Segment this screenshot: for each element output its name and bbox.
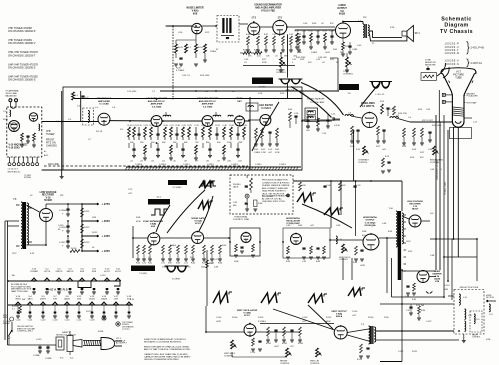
IF screen bypass labels xyxy=(135,163,287,166)
label damper xyxy=(432,271,442,283)
svg-text:.05: .05 xyxy=(173,161,177,163)
svg-text:R-92: R-92 xyxy=(408,251,412,253)
IF bias bank tier 2 xyxy=(129,143,240,160)
height control xyxy=(280,348,292,365)
svg-text:L-17: L-17 xyxy=(473,122,478,124)
filter capacitors C-131 xyxy=(59,204,82,248)
svg-text:C-110: C-110 xyxy=(250,352,255,354)
vert osc values xyxy=(266,343,303,348)
IF bias bank tier 1 xyxy=(128,125,248,140)
svg-text:B+: B+ xyxy=(44,151,47,153)
svg-text:C-72: C-72 xyxy=(184,263,188,265)
svg-text:RES: RES xyxy=(3,317,8,319)
note to heater string xyxy=(24,175,32,179)
waveform pulse pair xyxy=(200,181,216,186)
svg-text:R-24: R-24 xyxy=(216,125,221,127)
svg-text:LOW VOLTAGE: LOW VOLTAGE xyxy=(40,191,57,194)
svg-text:R-33: R-33 xyxy=(300,59,305,61)
svg-text:R-27: R-27 xyxy=(262,59,266,61)
svg-text:70K: 70K xyxy=(195,142,199,144)
coil L-3 shield (dashed) xyxy=(83,108,94,125)
AGC network xyxy=(254,128,280,154)
svg-text:+: + xyxy=(62,229,64,232)
svg-text:5T8: 5T8 xyxy=(53,298,58,300)
svg-text:R-34: R-34 xyxy=(295,31,300,33)
wire yoke feeds xyxy=(436,290,454,302)
svg-text:ON CHASSIS 100290-V: ON CHASSIS 100290-V xyxy=(8,41,36,45)
svg-text:1B3: 1B3 xyxy=(77,298,82,300)
heater row 2 bypass xyxy=(16,305,131,318)
svg-text:L-8 36: L-8 36 xyxy=(334,125,340,127)
svg-text:AMPLIFIER: AMPLIFIER xyxy=(151,103,163,106)
svg-text:AGC LINE: AGC LINE xyxy=(48,163,59,166)
wire B+ bus xyxy=(81,204,83,251)
svg-text:C-37: C-37 xyxy=(237,125,241,127)
svg-text:4.7: 4.7 xyxy=(188,47,192,49)
svg-text:C-139 A: C-139 A xyxy=(135,163,142,166)
svg-text:6U8: 6U8 xyxy=(193,14,198,16)
svg-text:DL-1: DL-1 xyxy=(157,197,162,199)
svg-text:.04: .04 xyxy=(162,161,166,163)
tube V-13 xyxy=(363,234,379,250)
svg-text:VIDEO: VIDEO xyxy=(236,98,243,100)
svg-text:S-2: S-2 xyxy=(70,358,74,360)
svg-text:24DLP4B: 24DLP4B xyxy=(471,45,485,49)
svg-text:R-51: R-51 xyxy=(380,101,384,103)
svg-text:2.2M: 2.2M xyxy=(214,267,219,269)
svg-text:R-111: R-111 xyxy=(412,351,417,353)
svg-text:R-41: R-41 xyxy=(333,49,337,51)
wire IF signal row xyxy=(109,120,250,122)
svg-text:ON CHASSIS 100295-S: ON CHASSIS 100295-S xyxy=(8,65,36,69)
svg-text:SURGE: SURGE xyxy=(3,323,10,325)
svg-text:ION TRAP: ION TRAP xyxy=(467,101,477,104)
svg-text:C-139 B: C-139 B xyxy=(159,164,167,166)
svg-text:V-8: V-8 xyxy=(340,11,344,13)
svg-text:STRING: STRING xyxy=(24,177,32,179)
svg-text:R-81: R-81 xyxy=(342,185,346,187)
volume control R-36 xyxy=(276,53,287,74)
yoke damping RC xyxy=(406,304,425,320)
svg-text:C-81: C-81 xyxy=(233,202,237,204)
svg-text:R-134: R-134 xyxy=(71,248,77,250)
svg-text:10W: 10W xyxy=(92,217,96,219)
wire sound takeoff (shielded) xyxy=(172,26,174,97)
svg-text:R-24: R-24 xyxy=(198,47,203,49)
svg-text:CHECKED WITH VTVM.: CHECKED WITH VTVM. xyxy=(262,201,285,203)
svg-text:C-33 .01: C-33 .01 xyxy=(182,75,190,77)
svg-text:R-23: R-23 xyxy=(178,47,183,49)
wire speaker loop xyxy=(370,31,407,41)
svg-text:80K: 80K xyxy=(206,142,210,144)
svg-text:R-5: R-5 xyxy=(120,129,124,131)
svg-text:C-55: C-55 xyxy=(322,133,327,135)
contrast control xyxy=(358,146,370,164)
svg-text:V-9(A): V-9(A) xyxy=(336,313,343,316)
note surge xyxy=(3,321,11,325)
svg-text:V-13 6DQ6: V-13 6DQ6 xyxy=(365,222,377,224)
video load resistor xyxy=(402,128,407,148)
audio cathode network xyxy=(341,38,356,56)
svg-text:SYNC SEPARATOR: SYNC SEPARATOR xyxy=(143,220,163,223)
CRT focus box xyxy=(450,128,472,139)
svg-text:C-8: C-8 xyxy=(112,107,116,109)
capacitor C-138A xyxy=(33,345,42,357)
chassis list group 2 xyxy=(445,59,483,67)
svg-text:10K: 10K xyxy=(306,130,310,132)
svg-text:6.8K: 6.8K xyxy=(388,231,393,233)
svg-text:5T8: 5T8 xyxy=(278,16,283,20)
svg-text:4.7 MEG: 4.7 MEG xyxy=(176,70,185,72)
ground at x62 xyxy=(60,177,64,179)
svg-text:R-37: R-37 xyxy=(330,59,334,61)
svg-text:FUSE: FUSE xyxy=(98,331,104,333)
svg-text:1 MEG: 1 MEG xyxy=(254,152,261,154)
svg-text:C-75: C-75 xyxy=(128,189,133,191)
heater row 1 labels xyxy=(30,269,121,273)
svg-text:R-40 220K: R-40 220K xyxy=(296,57,306,59)
sync values xyxy=(137,267,219,269)
heater row 2 xyxy=(8,302,133,306)
video plate parts xyxy=(380,101,395,116)
heater bypass labels xyxy=(16,320,107,322)
horiz control box xyxy=(230,228,260,256)
svg-text:117V: 117V xyxy=(12,253,17,255)
svg-text:40K: 40K xyxy=(162,142,166,144)
svg-text:OUTPUT: OUTPUT xyxy=(337,8,347,10)
svg-text:R-19: R-19 xyxy=(280,93,284,95)
svg-text:SECTION: SECTION xyxy=(486,297,494,299)
svg-text:AND 1/2 WATT UNLESS OTHERWISE: AND 1/2 WATT UNLESS OTHERWISE NOTED. xyxy=(144,348,191,351)
svg-text:6DQ6: 6DQ6 xyxy=(89,298,95,300)
svg-text:R-29: R-29 xyxy=(254,50,258,52)
svg-text:8.2K: 8.2K xyxy=(385,156,390,158)
video det coil box xyxy=(246,103,258,111)
svg-text:R-37: R-37 xyxy=(323,31,327,33)
heater row 1 xyxy=(8,278,121,288)
svg-text:H E A T E R S: H E A T E R S xyxy=(48,288,67,292)
svg-text:LEAD FROM PLAYER TO: LEAD FROM PLAYER TO xyxy=(262,190,287,193)
waveform sync 1 xyxy=(297,193,316,202)
tube V-11B vert xyxy=(244,324,256,336)
svg-text:300Ω: 300Ω xyxy=(3,119,8,121)
svg-text:CONTROL: CONTROL xyxy=(472,337,481,339)
wire diag 1 xyxy=(273,309,335,330)
tuner tube V-15 xyxy=(9,121,20,132)
wire vertical at x62 xyxy=(61,91,63,176)
svg-text:C-46: C-46 xyxy=(330,31,335,33)
svg-text:R-85: R-85 xyxy=(286,261,290,263)
svg-text:100293-R: 100293-R xyxy=(445,52,460,55)
svg-text:.02: .02 xyxy=(322,62,325,64)
svg-text:R-59: R-59 xyxy=(410,157,414,159)
svg-text:C-77: C-77 xyxy=(214,259,218,261)
svg-text:10: 10 xyxy=(355,49,358,51)
svg-text:12AX4: 12AX4 xyxy=(101,297,108,300)
tube V-10A xyxy=(192,232,204,244)
damper network xyxy=(405,283,416,301)
wire row y280 stub xyxy=(343,279,402,281)
svg-text:C-143: C-143 xyxy=(53,320,58,322)
svg-text:PLAYER. REMOVE JUMPER: PLAYER. REMOVE JUMPER xyxy=(262,184,290,187)
wire video down xyxy=(353,131,355,181)
waveform vert 4 xyxy=(348,288,365,296)
tuner tube V-16 (partial) xyxy=(29,113,37,121)
svg-text:1 MEG: 1 MEG xyxy=(210,51,217,53)
svg-text:C-16: C-16 xyxy=(258,93,263,95)
svg-text:C-86: C-86 xyxy=(382,223,387,225)
wire CRT neck leads xyxy=(454,127,459,257)
wire vert bottom xyxy=(232,352,287,357)
svg-text:AUDIO: AUDIO xyxy=(338,4,346,7)
svg-text:C-39: C-39 xyxy=(316,59,320,61)
svg-text:6AQ5: 6AQ5 xyxy=(64,297,70,300)
label HORIZ OUTPUT xyxy=(363,216,378,227)
svg-text:V-3 3CB6: V-3 3CB6 xyxy=(203,106,213,108)
tube V-4 xyxy=(260,115,271,126)
svg-text:4.5 MC: 4.5 MC xyxy=(259,87,266,89)
svg-text:RECTIFIER: RECTIFIER xyxy=(42,195,55,197)
svg-text:TUNER: TUNER xyxy=(46,133,55,136)
power transformer T-8 xyxy=(13,199,32,249)
capacitor C-66 xyxy=(426,66,429,70)
svg-text:R-35: R-35 xyxy=(309,31,314,33)
svg-text:C-53: C-53 xyxy=(294,113,299,115)
svg-text:+ 125V: + 125V xyxy=(102,249,111,253)
svg-text:6CG7: 6CG7 xyxy=(244,315,250,317)
svg-text:220K: 220K xyxy=(384,317,389,319)
svg-text:6CG7: 6CG7 xyxy=(104,271,110,273)
svg-text:CONTROL TUBE: CONTROL TUBE xyxy=(233,219,250,221)
spark gap xyxy=(426,292,432,294)
label IF stage 1 xyxy=(97,98,112,105)
wire vert out row xyxy=(260,323,334,325)
svg-text:PROVISION IS MADE FOR: PROVISION IS MADE FOR xyxy=(262,179,288,182)
svg-text:TO 4.5 MC AMP: TO 4.5 MC AMP xyxy=(310,101,325,104)
svg-text:L-8: L-8 xyxy=(348,113,352,115)
wire vert row xyxy=(206,331,300,333)
svg-text:Schematic: Schematic xyxy=(441,16,472,22)
svg-text:CASCODE 1ST AMP: CASCODE 1ST AMP xyxy=(197,97,218,100)
svg-text:5: 5 xyxy=(292,62,294,64)
svg-text:R-55: R-55 xyxy=(418,109,423,111)
wire V7B-audio xyxy=(287,26,335,28)
svg-text:25: 25 xyxy=(372,43,375,45)
svg-text:1B3GT: 1B3GT xyxy=(412,209,419,211)
svg-text:ON CHASSIS 100292-P: ON CHASSIS 100292-P xyxy=(8,29,36,33)
svg-text:FROM BOOST SOURCE: FROM BOOST SOURCE xyxy=(437,159,439,180)
svg-text:R-18: R-18 xyxy=(176,125,181,127)
svg-text:R-88: R-88 xyxy=(362,231,367,233)
svg-text:6U8: 6U8 xyxy=(80,271,85,273)
svg-text:NOISE LIMITER: NOISE LIMITER xyxy=(186,8,203,10)
tube V-11B xyxy=(291,234,302,245)
svg-text:.0039: .0039 xyxy=(360,265,365,267)
coil pair scallops 2 xyxy=(370,79,393,97)
label IF stage 2 xyxy=(146,97,167,108)
svg-text:C-103: C-103 xyxy=(302,317,308,319)
svg-text:.047: .047 xyxy=(268,152,272,154)
svg-text:C-45: C-45 xyxy=(316,31,321,33)
IF inner top line xyxy=(74,98,302,100)
svg-text:.09: .09 xyxy=(217,161,220,163)
svg-text:3GK5: 3GK5 xyxy=(15,298,21,300)
label V-17 PICTURE TUBE xyxy=(453,71,464,80)
tuner components xyxy=(20,133,36,147)
label LV RECTIFIER xyxy=(40,191,57,202)
wire audio out top xyxy=(343,22,363,25)
svg-text:C-52: C-52 xyxy=(268,149,272,151)
svg-text:5AL5: 5AL5 xyxy=(27,297,33,300)
svg-text:5V: 5V xyxy=(30,195,33,197)
svg-text:R-65: R-65 xyxy=(202,263,206,265)
svg-text:TUNER: TUNER xyxy=(30,271,38,273)
yoke box (dashed) xyxy=(454,290,484,335)
capacitor C-2 xyxy=(81,96,89,99)
wire vert col xyxy=(206,250,207,332)
svg-text:OSCILLATOR: OSCILLATOR xyxy=(286,220,300,223)
svg-text:R-99: R-99 xyxy=(209,263,213,265)
yoke coil L-14B xyxy=(465,309,472,331)
svg-text:R-66: R-66 xyxy=(218,263,222,265)
svg-text:R-32: R-32 xyxy=(281,34,285,36)
peaking drops xyxy=(306,114,330,131)
svg-text:40: 40 xyxy=(58,229,61,231)
tube V-14 damper xyxy=(417,271,429,283)
svg-text:V-18: V-18 xyxy=(46,197,51,199)
label HORIZ CONTROL xyxy=(233,216,250,221)
svg-text:C-122: C-122 xyxy=(426,321,431,323)
svg-text:5T8: 5T8 xyxy=(252,16,257,20)
svg-text:Diagram: Diagram xyxy=(444,23,468,29)
svg-text:C-44: C-44 xyxy=(302,31,307,33)
svg-text:.0047: .0047 xyxy=(274,346,279,348)
svg-text:6U8: 6U8 xyxy=(151,226,156,228)
svg-text:R-103: R-103 xyxy=(298,343,303,345)
svg-text:C-23: C-23 xyxy=(144,125,149,127)
svg-text:TO DEFL YOKE: TO DEFL YOKE xyxy=(445,181,447,195)
tube V-6A xyxy=(192,23,202,33)
heater row 1 bypass xyxy=(32,281,120,294)
title Schematic Diagram TV Chassis xyxy=(440,16,473,35)
svg-text:C-91: C-91 xyxy=(357,185,361,187)
svg-text:AMPLIFIER: AMPLIFIER xyxy=(98,100,110,103)
svg-text:R-80: R-80 xyxy=(258,203,263,205)
transformer T-3 shield (dashed) xyxy=(217,16,239,43)
series peaking box xyxy=(302,108,332,122)
svg-text:C-27: C-27 xyxy=(170,125,174,127)
wire flyback to HV xyxy=(402,216,430,221)
cord connector xyxy=(73,340,82,348)
svg-text:.08: .08 xyxy=(206,161,210,163)
svg-text:R-132: R-132 xyxy=(84,227,89,229)
svg-text:R-42: R-42 xyxy=(261,149,265,151)
wire to sound disc xyxy=(202,24,248,26)
svg-text:3.3 MEG: 3.3 MEG xyxy=(258,321,266,323)
B+ dropping components xyxy=(299,182,361,191)
wire audio B+ drop xyxy=(330,58,338,91)
svg-text:1ST IF: 1ST IF xyxy=(44,271,51,273)
wire AGC line xyxy=(44,163,248,166)
vert hold xyxy=(224,340,237,357)
svg-text:L-9: L-9 xyxy=(408,117,411,119)
label AUDIO OUTPUT xyxy=(337,4,347,16)
vert cathode RC xyxy=(250,338,262,354)
svg-text:3.2Ω: 3.2Ω xyxy=(390,27,395,29)
svg-text:R-22: R-22 xyxy=(205,32,209,34)
resistor R-25 xyxy=(176,44,207,72)
label SYNC SEPARATOR xyxy=(143,220,163,228)
label P-3 S-2 xyxy=(60,358,74,360)
svg-text:CRT: CRT xyxy=(114,298,119,300)
coil pair scallops 1 xyxy=(279,77,303,92)
waveform sync 2 xyxy=(324,208,343,215)
svg-text:C-107: C-107 xyxy=(398,351,403,353)
interlock plug P-3 xyxy=(56,337,64,350)
svg-text:PRI: PRI xyxy=(363,17,367,19)
svg-text:.0047: .0047 xyxy=(216,321,221,323)
wire vert feed 1 xyxy=(435,115,437,270)
svg-text:100K: 100K xyxy=(234,261,239,263)
svg-text:.011: .011 xyxy=(238,161,242,163)
svg-text:R-60: R-60 xyxy=(136,263,140,265)
svg-text:R-98: R-98 xyxy=(486,339,491,341)
svg-text:ALL VOLTAGES MEASURED: ALL VOLTAGES MEASURED xyxy=(262,195,290,198)
svg-text:.01: .01 xyxy=(275,56,278,58)
label IF stage 3 xyxy=(197,97,218,108)
horiz osc network xyxy=(286,246,326,263)
leader arc 8 xyxy=(156,205,170,232)
AC plug P-1 xyxy=(101,338,122,350)
svg-text:R-43: R-43 xyxy=(275,149,280,151)
label VHF TUNER xyxy=(46,130,57,148)
svg-text:INDICATES CLOCKWISE ROTATION.: INDICATES CLOCKWISE ROTATION. xyxy=(144,341,182,344)
svg-text:R-105: R-105 xyxy=(258,317,264,319)
wire damper corner xyxy=(392,258,445,297)
svg-text:6.3V: 6.3V xyxy=(130,299,135,301)
IF interstage coil 3 xyxy=(228,115,233,116)
svg-text:C-90: C-90 xyxy=(327,185,331,187)
svg-text:AND 3RD PIX I.F.: AND 3RD PIX I.F. xyxy=(199,100,217,103)
svg-text:R-12: R-12 xyxy=(138,125,142,127)
svg-text:BALANCED: BALANCED xyxy=(5,95,17,98)
svg-text:47: 47 xyxy=(216,49,218,51)
peaking coil L-8 xyxy=(345,113,353,117)
svg-text:R-22: R-22 xyxy=(202,125,206,127)
transformer T-7 xyxy=(358,21,369,39)
svg-text:20K: 20K xyxy=(140,142,144,144)
svg-text:R-132: R-132 xyxy=(92,232,97,234)
svg-text:C-88: C-88 xyxy=(430,255,435,257)
svg-text:R-26 120K: R-26 120K xyxy=(200,75,210,77)
svg-text:6.3V: 6.3V xyxy=(30,253,35,255)
note: component conventions xyxy=(144,338,191,361)
svg-text:SW: SW xyxy=(22,299,25,301)
wire B+ top rail xyxy=(293,181,402,211)
svg-text:C-139 F: C-139 F xyxy=(255,164,263,166)
tone reminder label xyxy=(425,60,436,67)
svg-text:T-6: T-6 xyxy=(347,93,351,95)
svg-text:470K: 470K xyxy=(262,62,267,64)
svg-text:C-105: C-105 xyxy=(352,311,358,313)
leader arc 1 xyxy=(301,83,344,116)
svg-text:C-25: C-25 xyxy=(157,125,162,127)
svg-text:PRI: PRI xyxy=(60,195,64,197)
svg-text:C-138B: C-138B xyxy=(45,358,52,360)
svg-text:CAPACITORS MORE THAN ONE (1) I: CAPACITORS MORE THAN ONE (1) IN MMFD xyxy=(144,356,191,359)
svg-text:6CG7: 6CG7 xyxy=(195,223,201,225)
svg-text:.047: .047 xyxy=(352,315,356,317)
